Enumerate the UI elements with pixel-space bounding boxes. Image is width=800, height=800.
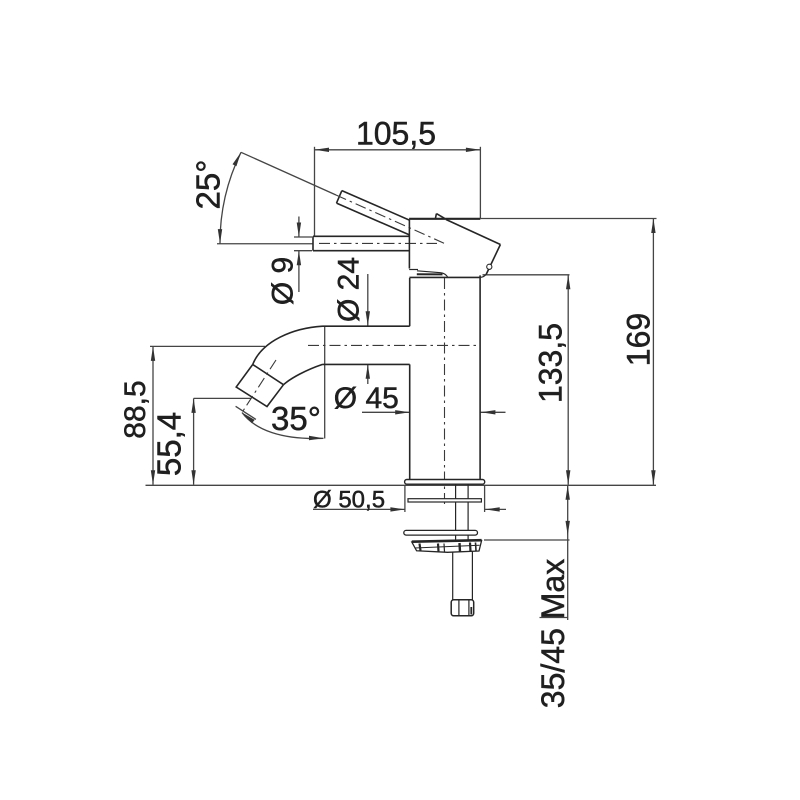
svg-text:Ø 9: Ø 9	[267, 257, 300, 305]
counter mounting surface line	[146, 484, 657, 486]
dimension 133,5 right	[483, 275, 571, 485]
dimension diameter 45 (body)	[334, 382, 506, 415]
svg-text:Ø 50,5: Ø 50,5	[313, 487, 385, 514]
svg-text:25°: 25°	[190, 160, 227, 210]
spout tube	[236, 326, 477, 412]
faucet body cylinder	[410, 275, 480, 508]
dimension 35/45 Max bottom right	[484, 485, 571, 708]
svg-text:169: 169	[621, 313, 657, 366]
svg-text:Ø 24: Ø 24	[333, 257, 366, 322]
dimension 55,4 left	[151, 398, 252, 484]
lever handle raised 25 deg	[336, 191, 444, 244]
base flange	[405, 480, 485, 485]
svg-text:105,5: 105,5	[356, 116, 436, 152]
hex nut	[451, 600, 474, 616]
dimension 169 far right	[480, 219, 656, 485]
lever rod horizontal position	[313, 236, 437, 250]
svg-text:35/45 Max: 35/45 Max	[535, 559, 571, 708]
svg-text:55,4: 55,4	[151, 412, 188, 476]
dimension 88,5 left	[119, 346, 265, 484]
metal washer	[408, 499, 481, 502]
dimension 25 degrees with arc	[190, 152, 337, 243]
horseshoe washer	[404, 530, 478, 535]
svg-text:133,5: 133,5	[533, 323, 569, 403]
svg-text:Ø 45: Ø 45	[334, 382, 399, 415]
svg-text:35°: 35°	[271, 400, 321, 437]
svg-text:88,5: 88,5	[119, 380, 152, 438]
threaded stud	[453, 552, 473, 601]
dimension 105,5 top	[315, 116, 481, 237]
dimension diameter 24 (spout tube)	[333, 257, 371, 384]
cartridge cap head	[409, 214, 500, 278]
threaded supply tube below counter	[456, 484, 469, 539]
serrated lock nut plate	[412, 540, 482, 552]
dimension diameter 9 (lever rod)	[267, 217, 313, 306]
dimension 35 degrees with arc	[236, 327, 325, 441]
dimension diameter 50,5 (base flange)	[313, 485, 506, 513]
